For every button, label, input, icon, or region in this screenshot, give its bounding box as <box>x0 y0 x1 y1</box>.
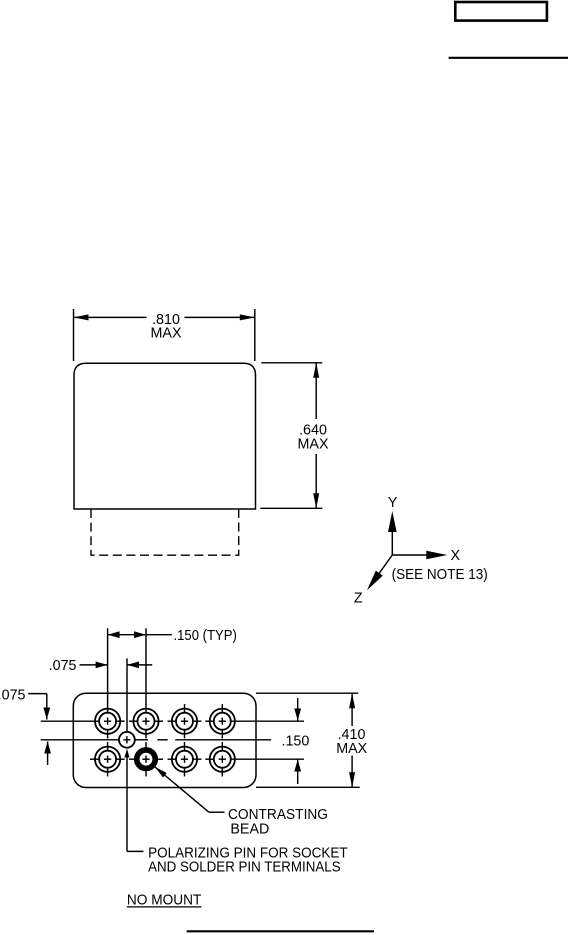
svg-text:Y: Y <box>388 495 398 511</box>
svg-text:.075: .075 <box>49 658 77 674</box>
terminal 3 (row 1) <box>172 704 197 738</box>
contrasting bead terminal 6 (row 2) <box>137 742 156 776</box>
terminal 1 (row 1) <box>95 704 120 738</box>
top view: hidden mounting skirt (dashed) <box>91 509 239 555</box>
view label NO MOUNT <box>127 893 202 909</box>
bottom view: case outline <box>73 693 256 787</box>
svg-text:X: X <box>451 548 461 564</box>
svg-text:BEAD: BEAD <box>230 822 269 838</box>
svg-text:.150 (TYP): .150 (TYP) <box>174 628 237 644</box>
svg-text:MAX: MAX <box>298 436 329 452</box>
dimension .410 MAX <box>256 693 368 787</box>
svg-text:.075: .075 <box>0 687 26 703</box>
svg-text:MAX: MAX <box>151 326 182 342</box>
terminal 7 (row 2) <box>172 742 197 776</box>
dimension .075 pin column offset <box>49 658 153 732</box>
centerline polarizing-pin row <box>41 739 272 741</box>
polarizing pin <box>119 732 135 748</box>
footer rule <box>187 930 374 932</box>
centerline row 2 (through terminals 5-8) <box>90 758 304 760</box>
terminal 5 (row 2) <box>95 742 120 776</box>
terminal 4 (row 1) <box>210 704 235 738</box>
coordinate axes symbol: X axis <box>392 548 460 564</box>
svg-text:NO MOUNT: NO MOUNT <box>127 893 202 909</box>
coordinate axes symbol: Z axis <box>354 555 392 607</box>
header rule <box>449 57 568 59</box>
svg-text:(SEE NOTE 13): (SEE NOTE 13) <box>392 567 488 583</box>
svg-text:AND SOLDER PIN TERMINALS: AND SOLDER PIN TERMINALS <box>148 860 341 876</box>
dimension .150 row pitch (right) <box>282 698 310 784</box>
centerline row 1 (through terminals 1-4) <box>41 720 304 722</box>
svg-text:CONTRASTING: CONTRASTING <box>228 807 328 823</box>
leader: contrasting bead callout <box>155 767 328 838</box>
dimension .075 pin row offset (left) <box>0 687 51 765</box>
title block box <box>455 2 547 21</box>
leader: polarizing pin callout <box>125 749 348 876</box>
svg-text:MAX: MAX <box>336 741 367 757</box>
coordinate axes symbol: Y axis <box>388 495 398 555</box>
dimension .640 MAX <box>260 363 329 509</box>
terminal 2 (row 1) <box>133 704 158 738</box>
svg-text:Z: Z <box>354 591 363 607</box>
dimension .810 MAX <box>74 309 255 361</box>
terminal 8 (row 2) <box>210 742 235 776</box>
svg-text:.150: .150 <box>282 733 310 749</box>
top view: relay case body <box>74 363 256 509</box>
dimension .150 (TYP) terminal pitch <box>108 628 237 704</box>
